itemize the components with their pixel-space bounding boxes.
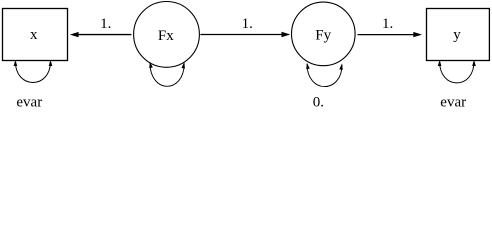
node Fx (latent variable circle)	[134, 2, 200, 68]
variance self-loop of x : right arrowhead	[49, 60, 53, 66]
node y (observed variable rectangle)	[427, 9, 490, 61]
svg-text:evar: evar	[440, 94, 466, 109]
edge Fy to y : wire	[358, 34, 414, 36]
edge Fx to Fy : wire	[200, 34, 281, 36]
svg-text:1.: 1.	[242, 16, 253, 32]
variance self-loop of Fy : right arrowhead	[339, 63, 344, 70]
svg-text:y: y	[453, 27, 461, 43]
svg-text:1.: 1.	[382, 16, 393, 32]
edge Fx to x : wire	[78, 34, 131, 36]
variance self-loop of Fx : arc	[150, 63, 184, 86]
svg-text:Fy: Fy	[315, 28, 331, 44]
variance self-loop of y : left arrowhead	[438, 60, 442, 66]
variance self-loop of x : arc	[15, 62, 50, 83]
node x (observed variable rectangle)	[3, 9, 68, 61]
variance self-loop of y : right arrowhead	[472, 60, 476, 66]
variance self-loop of Fy : left arrowhead	[305, 62, 310, 69]
variance self-loop of x : left arrowhead	[14, 60, 18, 66]
svg-text:x: x	[30, 27, 38, 43]
edge Fx to Fy : arrowhead	[282, 32, 291, 37]
edge Fy to y : arrowhead	[413, 32, 422, 37]
svg-text:Fx: Fx	[158, 28, 174, 44]
variance self-loop of y : arc	[440, 62, 474, 83]
variance self-loop of Fy : arc	[307, 64, 342, 87]
svg-text:evar: evar	[16, 94, 42, 109]
edge Fx to x : arrowhead	[70, 32, 79, 37]
variance self-loop of Fx : right arrowhead	[181, 62, 186, 69]
svg-text:1.: 1.	[100, 16, 111, 32]
svg-text:0.: 0.	[313, 95, 324, 109]
node Fy (latent variable circle)	[292, 2, 356, 66]
variance self-loop of Fx : left arrowhead	[148, 61, 153, 68]
